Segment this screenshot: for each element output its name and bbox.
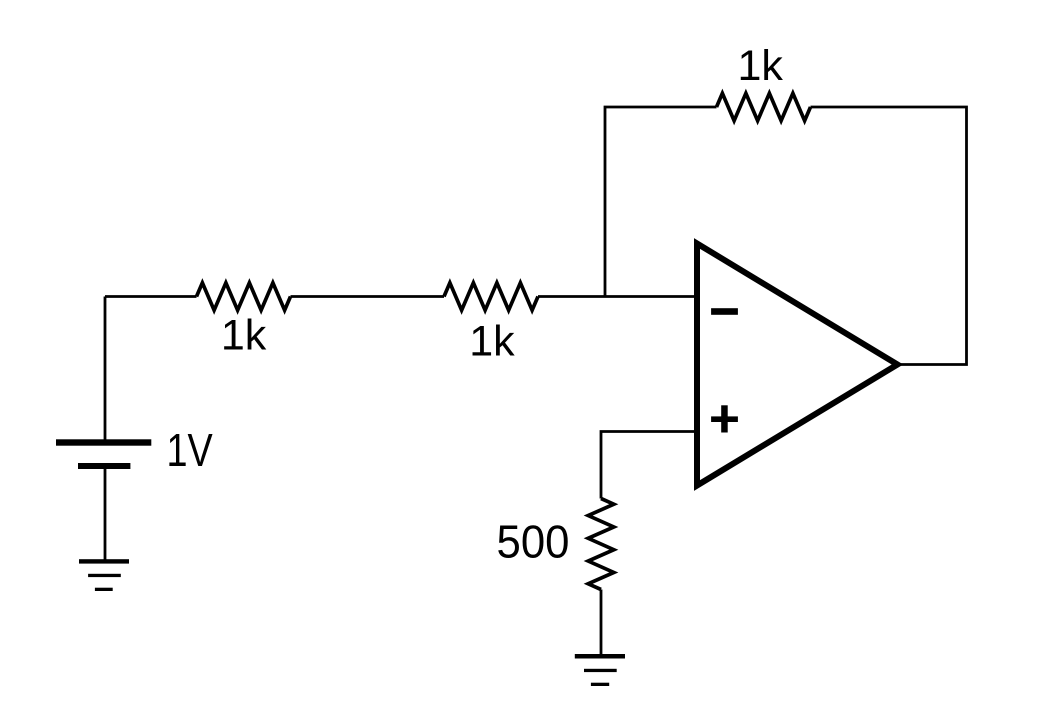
svg-text:1k: 1k — [469, 317, 515, 365]
svg-text:1V: 1V — [166, 424, 213, 476]
svg-text:1k: 1k — [221, 312, 267, 360]
svg-text:500: 500 — [497, 515, 570, 568]
svg-text:1k: 1k — [737, 42, 783, 90]
